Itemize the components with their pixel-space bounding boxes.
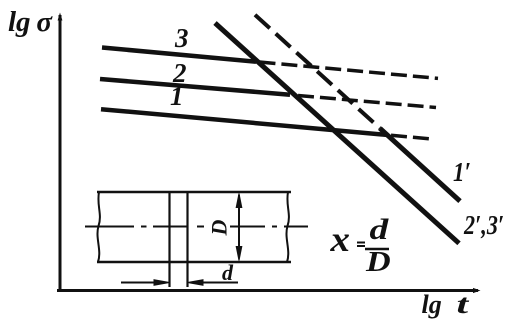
formula equals sign bbox=[357, 242, 365, 244]
neck line right bbox=[186, 192, 188, 287]
curve 2',3' solid steep bbox=[215, 23, 459, 243]
svg-text:2′,3′: 2′,3′ bbox=[463, 211, 504, 241]
x-axis bbox=[57, 289, 478, 292]
svg-text:1: 1 bbox=[170, 81, 184, 111]
curve 1' dashed upper part bbox=[255, 15, 380, 129]
curve 2 solid bbox=[100, 79, 290, 95]
x-axis arrow tip bbox=[473, 288, 481, 293]
curve 1 solid bbox=[101, 109, 388, 135]
neck line left bbox=[168, 192, 170, 287]
formula fraction bar bbox=[365, 248, 389, 251]
D dimension arrow bbox=[236, 194, 242, 261]
centerline dash-dot bbox=[85, 226, 308, 228]
d dimension arrows bbox=[121, 280, 238, 286]
svg-text:D: D bbox=[365, 246, 391, 277]
specimen right break line bbox=[286, 192, 288, 262]
curve 2 dashed extension bbox=[298, 96, 436, 108]
svg-text:lg σ: lg σ bbox=[8, 6, 53, 38]
svg-text:t: t bbox=[457, 289, 470, 319]
curve 1 dashed extension bbox=[391, 135, 431, 139]
svg-text:d: d bbox=[370, 213, 390, 246]
specimen top edge bbox=[97, 191, 291, 194]
specimen left break line bbox=[97, 192, 99, 262]
svg-text:1′: 1′ bbox=[453, 158, 471, 187]
svg-text:lg: lg bbox=[422, 290, 442, 319]
y-axis arrow tip bbox=[58, 13, 63, 21]
svg-text:x: x bbox=[329, 220, 349, 259]
curve 3 solid bbox=[102, 48, 256, 62]
y-axis bbox=[59, 15, 62, 291]
svg-text:3: 3 bbox=[174, 23, 189, 53]
curve 1' solid lower part bbox=[380, 128, 460, 201]
svg-text:d: d bbox=[222, 260, 234, 285]
curve 3 dashed extension bbox=[260, 62, 439, 78]
specimen bottom edge bbox=[97, 261, 291, 264]
svg-text:D: D bbox=[207, 219, 232, 236]
